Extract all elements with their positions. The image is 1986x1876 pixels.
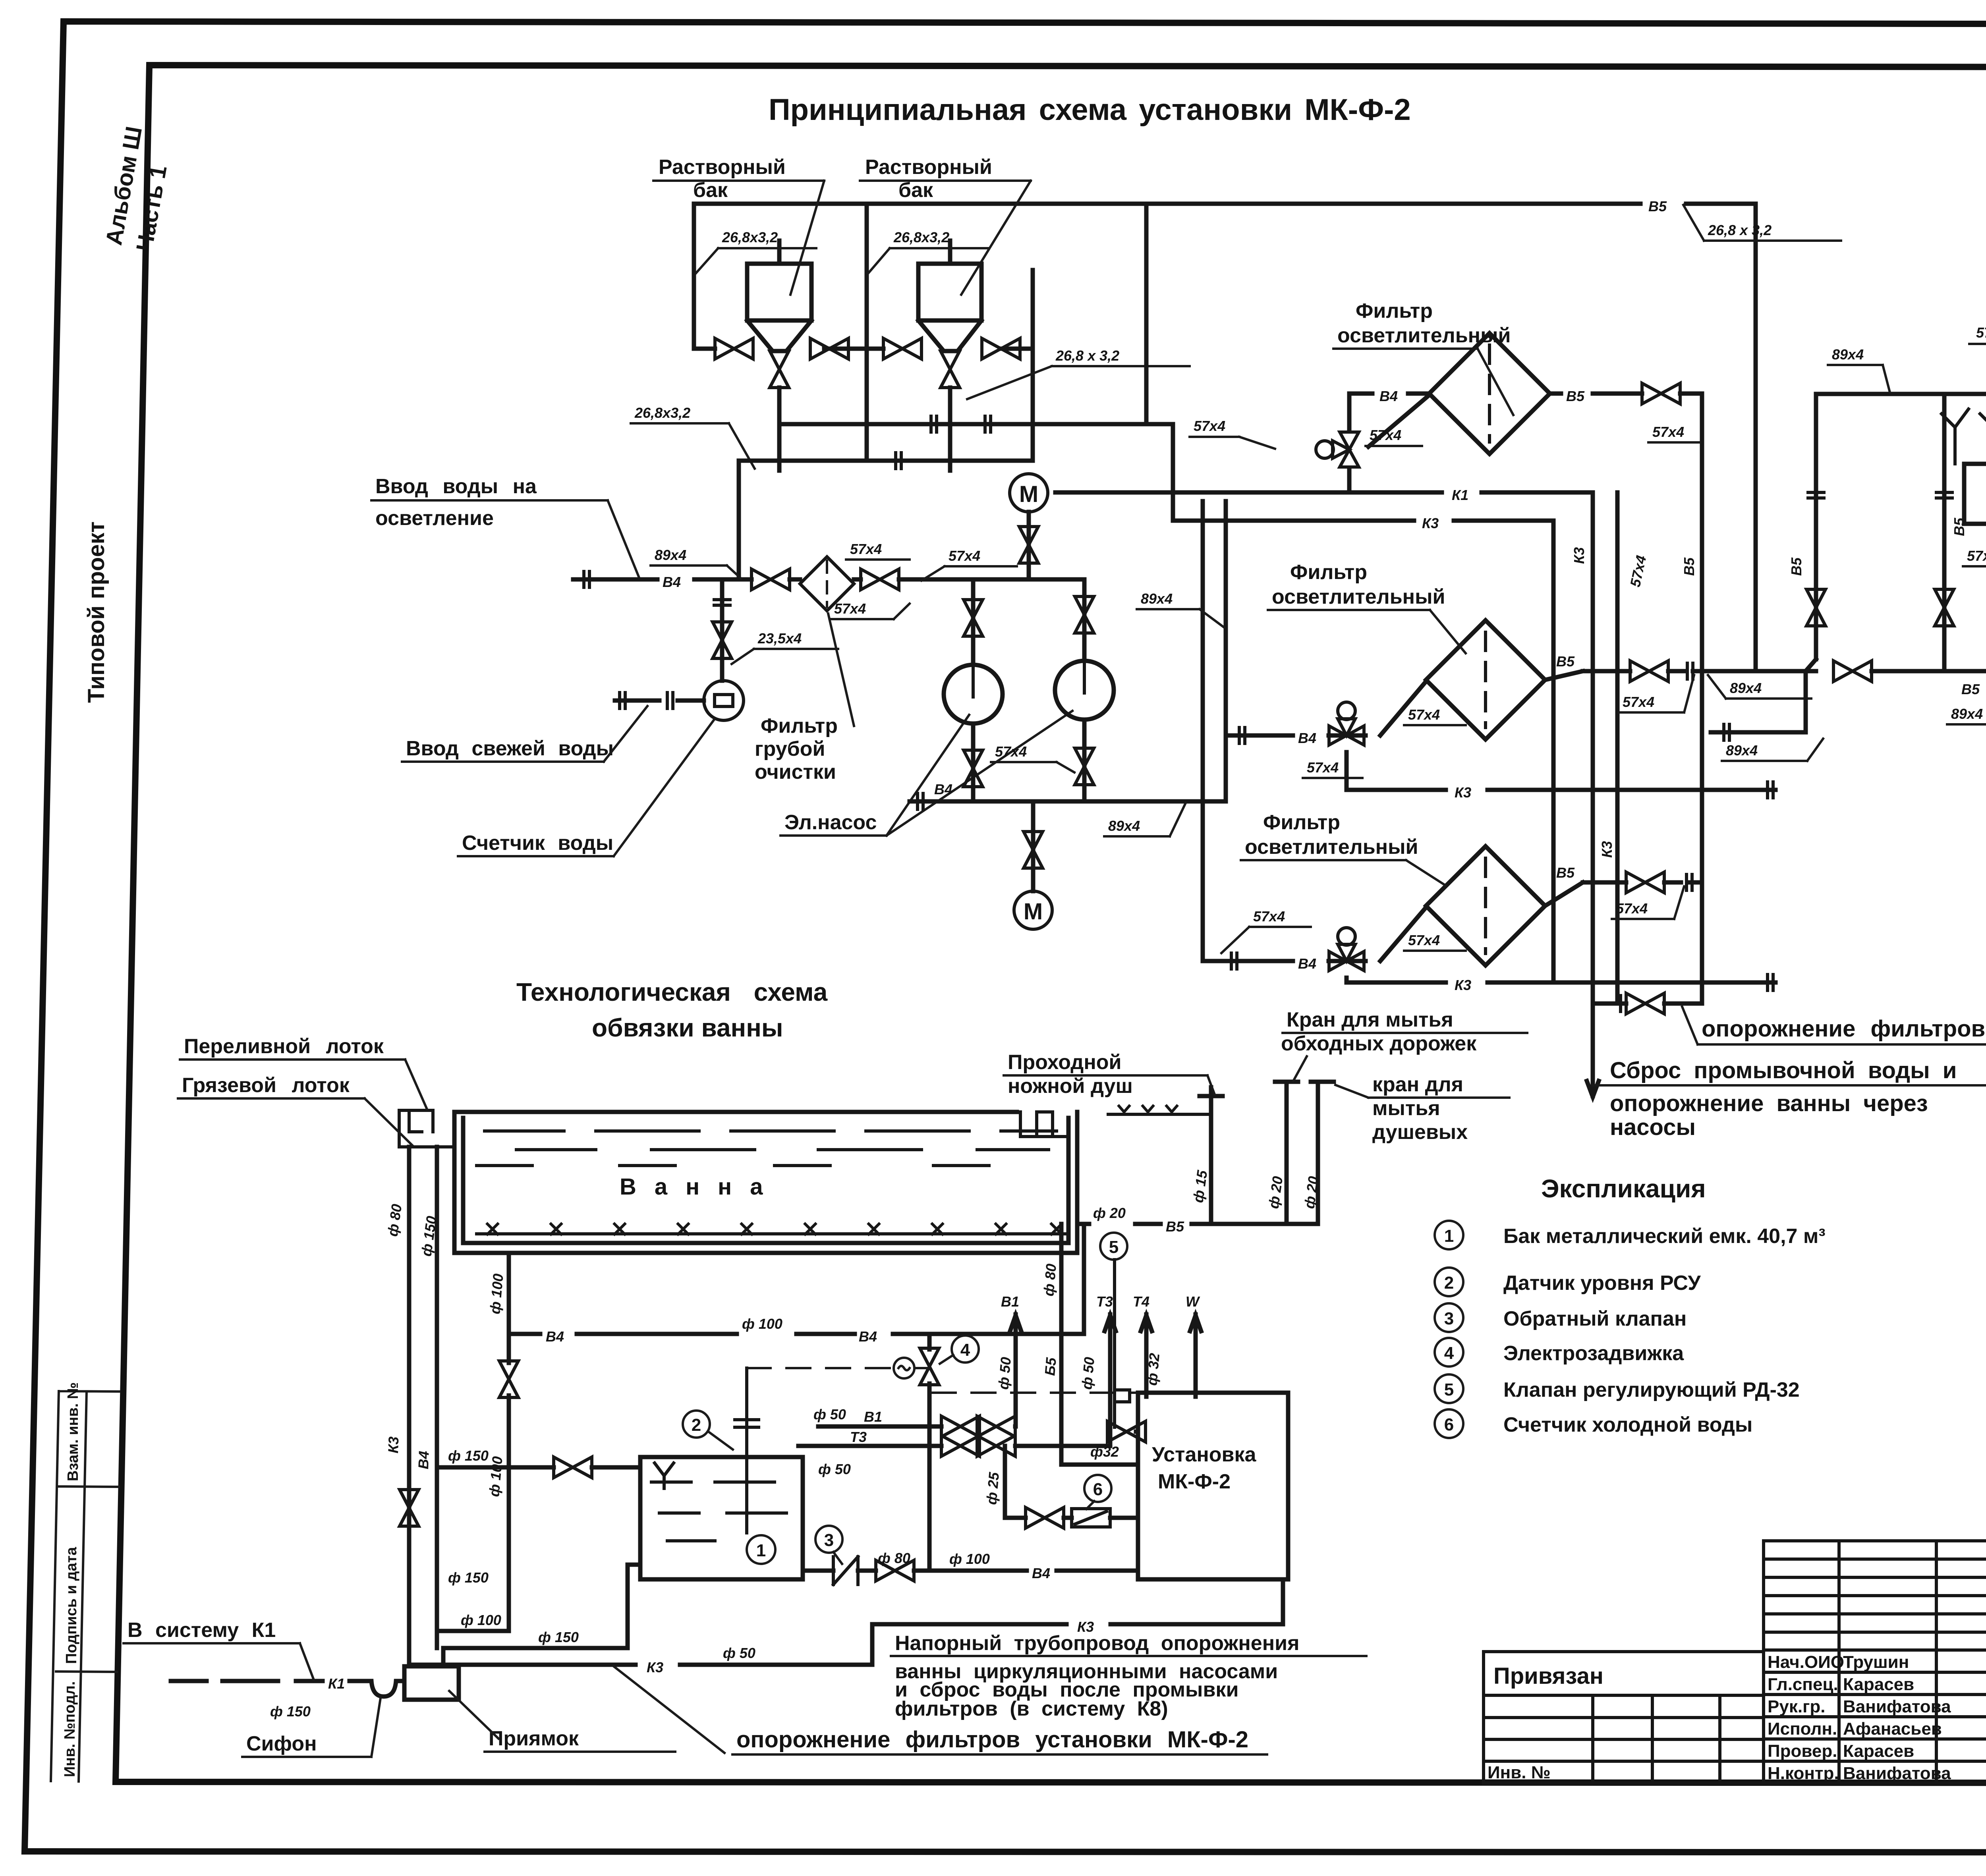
wire: K1 outfall dashes xyxy=(171,1679,359,1683)
bath bottom x marks xyxy=(487,1224,1062,1234)
svg-text:В5: В5 xyxy=(1648,198,1667,214)
flange tick xyxy=(1621,994,1626,1013)
flange tick xyxy=(985,415,991,434)
foot shower line xyxy=(1108,1113,1211,1116)
svg-text:Ванифатова: Ванифатова xyxy=(1843,1764,1951,1783)
svg-text:Типовой проект: Типовой проект xyxy=(83,521,109,703)
wire: filter3 outlet second B5 line xyxy=(1545,882,1702,906)
3-way valve filter2 xyxy=(1329,702,1364,745)
svg-text:В1: В1 xyxy=(1001,1293,1019,1310)
svg-text:К1: К1 xyxy=(1452,487,1468,503)
svg-text:57х4: 57х4 xyxy=(949,548,980,564)
svg-text:бак: бак xyxy=(693,179,728,202)
wire: K3 drop column xyxy=(1615,492,1620,1004)
svg-text:ножной душ: ножной душ xyxy=(1008,1075,1133,1098)
svg-text:ф 32: ф 32 xyxy=(1144,1353,1163,1386)
wire: fresh water stub xyxy=(615,699,704,703)
svg-text:Карасев: Карасев xyxy=(1843,1741,1914,1761)
wire: mid feed drop xyxy=(824,204,883,461)
svg-text:К1: К1 xyxy=(328,1675,345,1692)
svg-text:57х4: 57х4 xyxy=(850,541,882,557)
svg-text:Исполн.: Исполн. xyxy=(1768,1719,1837,1739)
wire: K3 drop from trough xyxy=(407,1147,411,1665)
svg-text:4: 4 xyxy=(1444,1343,1454,1363)
svg-text:Растворный: Растворный xyxy=(659,156,786,179)
wire: B4 drop from trough xyxy=(435,1147,439,1648)
small grid top xyxy=(1764,1541,1986,1650)
svg-text:6: 6 xyxy=(1444,1415,1454,1434)
svg-text:Установка: Установка xyxy=(1152,1443,1257,1466)
valve under tank2 funnel xyxy=(941,351,960,388)
svg-text:Принципиальная схема устан: Принципиальная схема установки МК-Ф-2 xyxy=(769,93,1411,127)
valve xyxy=(964,600,983,636)
wire: filter3 inlet xyxy=(1204,907,1426,961)
svg-text:Т4: Т4 xyxy=(1133,1293,1149,1310)
valve inlet left xyxy=(752,569,790,590)
svg-text:Т3: Т3 xyxy=(1096,1293,1113,1310)
svg-text:фильтров (в систему К8): фильтров (в систему К8) xyxy=(895,1697,1168,1720)
wire: K3 f50 bottom line xyxy=(409,1663,872,1667)
callout circle 3 xyxy=(815,1526,842,1553)
wire: T3 riser with arrow xyxy=(1105,1314,1116,1446)
svg-text:57х4: 57х4 xyxy=(1370,427,1401,443)
valve tank1 right xyxy=(810,338,848,359)
wire: T4 riser with arrow xyxy=(1141,1314,1152,1397)
water heater xyxy=(1964,464,1986,524)
unit MK-F-2 box xyxy=(1138,1393,1288,1579)
motor M top xyxy=(1010,474,1048,512)
valve tank2 right xyxy=(982,338,1020,359)
svg-text:В систему К1: В систему К1 xyxy=(128,1619,276,1642)
valve xyxy=(400,1490,419,1526)
svg-text:Технологическая схема: Технологическая схема xyxy=(516,978,828,1006)
svg-text:5: 5 xyxy=(1109,1237,1119,1257)
siphon xyxy=(359,1681,404,1697)
svg-text:26,8х3,2: 26,8х3,2 xyxy=(893,229,949,245)
svg-text:кран для: кран для xyxy=(1372,1073,1463,1096)
wire: B5 filling header xyxy=(1077,1091,1318,1224)
left attach block xyxy=(1484,1652,1764,1783)
svg-text:4: 4 xyxy=(960,1340,970,1360)
callout circle 1 xyxy=(747,1535,775,1564)
svg-text:Сифон: Сифон xyxy=(246,1732,317,1755)
gate valve on meter drop xyxy=(713,622,732,658)
svg-text:3: 3 xyxy=(824,1531,834,1550)
wire: B5 riser to unit xyxy=(1061,1224,1138,1465)
svg-text:В4: В4 xyxy=(663,574,681,590)
valve xyxy=(1630,661,1668,681)
svg-text:ф 20: ф 20 xyxy=(1093,1205,1126,1221)
wire: B4 line to unit xyxy=(509,1332,1084,1336)
svg-text:Взам. инв. №: Взам. инв. № xyxy=(65,1382,81,1481)
svg-text:Кран для мытья: Кран для мытья xyxy=(1287,1008,1453,1031)
wire: collector line 2 xyxy=(739,461,1033,579)
level sensor stick xyxy=(735,1368,759,1533)
svg-text:Ввод свежей воды: Ввод свежей воды xyxy=(406,737,614,760)
svg-text:Проходной: Проходной xyxy=(1008,1051,1121,1074)
svg-text:ф 25: ф 25 xyxy=(983,1471,1002,1505)
svg-text:К3: К3 xyxy=(647,1659,663,1675)
svg-text:57х4: 57х4 xyxy=(1194,418,1225,434)
svg-text:В5: В5 xyxy=(1556,865,1575,881)
wire: W riser with arrow xyxy=(1190,1314,1201,1397)
wire: tank feed f150 xyxy=(437,1465,640,1470)
svg-text:Рук.гр.: Рук.гр. xyxy=(1768,1697,1826,1716)
solution tank 2 xyxy=(918,241,981,351)
pump 2 xyxy=(1055,661,1114,720)
svg-text:ф 100: ф 100 xyxy=(742,1316,782,1332)
svg-text:осветлительный: осветлительный xyxy=(1245,836,1418,859)
heater inlet funnels xyxy=(1942,395,1986,464)
svg-text:Фильтр: Фильтр xyxy=(1290,561,1367,584)
wire: bath center drain xyxy=(507,1253,511,1334)
svg-text:Напорный трубопровод опорожн: Напорный трубопровод опорожнения xyxy=(895,1632,1299,1655)
dashed line to unit xyxy=(932,1392,1138,1394)
svg-text:Растворный: Растворный xyxy=(865,156,992,179)
svg-text:К3: К3 xyxy=(1455,977,1471,993)
svg-text:Провер.: Провер. xyxy=(1768,1741,1837,1761)
wire: T3 line xyxy=(798,1444,1110,1448)
svg-text:обвязки ванны: обвязки ванны xyxy=(592,1013,783,1042)
circle symbol xyxy=(1435,1374,1463,1403)
svg-text:Подпись и дата: Подпись и дата xyxy=(63,1547,80,1664)
valve xyxy=(920,1348,939,1385)
svg-text:6: 6 xyxy=(1093,1480,1103,1499)
wire: riser A down xyxy=(1224,501,1228,801)
pit (priyamok) xyxy=(404,1666,459,1700)
svg-text:В4: В4 xyxy=(1298,955,1316,972)
wire: filter2 outlet to main outlet line xyxy=(1545,671,1986,680)
valve xyxy=(499,1361,518,1397)
flange tick xyxy=(1806,492,1826,498)
svg-text:ф 50: ф 50 xyxy=(813,1406,846,1422)
wire: bath right drain riser xyxy=(1082,1224,1086,1334)
TOPSCHEME xyxy=(371,156,1986,1097)
flange tick xyxy=(1231,952,1237,971)
svg-text:ф 15: ф 15 xyxy=(1190,1169,1210,1204)
svg-text:ф 50: ф 50 xyxy=(818,1461,851,1477)
wire: filter3 K3 drain xyxy=(1347,978,1775,982)
svg-text:57х4: 57х4 xyxy=(1307,759,1339,776)
svg-text:бак: бак xyxy=(898,179,933,202)
valve xyxy=(1626,872,1664,893)
3-way valve filter3 xyxy=(1329,928,1364,971)
clarifying filter 3 xyxy=(1426,846,1545,965)
wire: cold meter line item 6 xyxy=(1005,1446,1138,1518)
electric gate valve with circle 4 xyxy=(927,1334,932,1571)
svg-text:В5: В5 xyxy=(1961,681,1980,697)
svg-text:В5: В5 xyxy=(1788,557,1804,576)
tap risers f20 xyxy=(1275,1082,1298,1224)
flange tick xyxy=(1687,873,1692,892)
wire: collector line 1 (tanks drain) xyxy=(779,424,1173,521)
wire: heater loop top xyxy=(1816,394,1986,421)
flange tick xyxy=(667,691,673,710)
flange tick xyxy=(1768,780,1773,799)
valve xyxy=(964,750,983,787)
clarifying filter 1 xyxy=(1429,333,1550,454)
wire: tank1 feed drop xyxy=(694,204,715,349)
left margin stamp boxes xyxy=(51,1391,120,1781)
svg-text:К3: К3 xyxy=(1455,784,1471,801)
wire: K3 line from tanks xyxy=(1173,521,1553,982)
shower riser f15 xyxy=(1200,1087,1223,1224)
svg-text:Счетчик воды: Счетчик воды xyxy=(462,832,613,855)
flange tick xyxy=(918,792,923,811)
svg-text:26,8х3,2: 26,8х3,2 xyxy=(722,229,778,245)
wire: V1 line xyxy=(818,1424,1016,1429)
valve xyxy=(1019,527,1038,563)
wire: drain line to pit xyxy=(1593,1002,1702,1006)
svg-text:Гл.спец.: Гл.спец. xyxy=(1768,1675,1838,1694)
svg-text:57х4: 57х4 xyxy=(1976,324,1986,341)
svg-text:57х4: 57х4 xyxy=(1652,424,1684,440)
callout circle 5 regulating valve RD-32 xyxy=(1100,1233,1127,1260)
wire tank1 drain xyxy=(777,351,782,471)
svg-text:2: 2 xyxy=(692,1415,701,1435)
wire: top B5 header xyxy=(694,204,1756,671)
svg-text:М: М xyxy=(1024,899,1043,924)
svg-text:57х4: 57х4 xyxy=(1967,548,1986,564)
svg-text:57х4: 57х4 xyxy=(1408,706,1440,723)
svg-text:В5: В5 xyxy=(1566,388,1585,404)
valve T3 a xyxy=(941,1436,979,1456)
wire: heater loop riser xyxy=(1806,394,1816,671)
svg-text:Инв. №: Инв. № xyxy=(1488,1763,1551,1782)
tank inlet funnel xyxy=(655,1463,674,1488)
svg-text:3: 3 xyxy=(1444,1309,1454,1328)
svg-text:1: 1 xyxy=(1444,1226,1454,1246)
svg-text:89х4: 89х4 xyxy=(655,547,686,563)
wire: pump discharges down xyxy=(973,720,1084,801)
svg-text:опорожнение фильтров установ: опорожнение фильтров установки МК-Ф-2 xyxy=(736,1727,1248,1752)
wire: filter1 inlet xyxy=(1349,394,1429,447)
water meter xyxy=(704,681,744,720)
svg-text:ф 100: ф 100 xyxy=(486,1456,506,1498)
svg-text:В5: В5 xyxy=(1166,1218,1184,1235)
svg-text:26,8 х 3,2: 26,8 х 3,2 xyxy=(1055,347,1119,364)
valve xyxy=(1024,832,1043,868)
v mark xyxy=(1119,1106,1129,1112)
wire: K1 sewer line xyxy=(1055,492,1599,1097)
coarse filter (Y-strainer diamond) xyxy=(800,557,854,611)
flange tick xyxy=(620,691,625,710)
svg-text:В4: В4 xyxy=(1298,730,1316,746)
svg-text:Т3: Т3 xyxy=(850,1429,867,1445)
valve xyxy=(1806,589,1826,626)
wire: tank left drain down xyxy=(443,1565,640,1648)
svg-text:Нач.ОИО: Нач.ОИО xyxy=(1768,1652,1844,1672)
valve under tank1 funnel xyxy=(770,351,789,388)
svg-text:ф 50: ф 50 xyxy=(1078,1357,1097,1390)
overflow trough left xyxy=(399,1110,454,1147)
svg-text:К3: К3 xyxy=(1599,841,1615,858)
svg-text:ф 80: ф 80 xyxy=(384,1203,405,1237)
solution tank 1 xyxy=(747,241,811,351)
circle symbol xyxy=(1435,1338,1463,1366)
junction ticks on collectors xyxy=(931,415,937,434)
flange tick xyxy=(1239,726,1245,745)
svg-text:Электрозадвижка: Электрозадвижка xyxy=(1503,1342,1684,1365)
svg-text:ф 100: ф 100 xyxy=(487,1273,506,1315)
svg-text:57х4: 57х4 xyxy=(1623,694,1654,710)
wire tank2 drain xyxy=(948,388,952,471)
svg-text:ф 150: ф 150 xyxy=(448,1569,489,1586)
svg-text:В4: В4 xyxy=(934,781,952,797)
valve V1 b xyxy=(977,1416,1015,1437)
svg-text:В1: В1 xyxy=(864,1409,882,1425)
svg-text:К3: К3 xyxy=(1571,547,1587,564)
valve xyxy=(1075,748,1094,785)
svg-text:57х4: 57х4 xyxy=(1253,908,1285,924)
svg-text:89х4: 89х4 xyxy=(1951,706,1983,722)
wire: V1 riser with arrow xyxy=(1010,1314,1021,1426)
x mark xyxy=(487,1224,498,1234)
valve V1 a xyxy=(941,1416,979,1437)
svg-text:Ванна: Ванна xyxy=(620,1174,781,1200)
svg-text:Карасев: Карасев xyxy=(1843,1675,1914,1694)
svg-text:Сброс промывочной воды и: Сброс промывочной воды и xyxy=(1610,1058,1957,1083)
svg-text:ф 80: ф 80 xyxy=(878,1550,910,1566)
svg-text:В4: В4 xyxy=(415,1451,432,1469)
pump 1 xyxy=(944,665,1003,724)
svg-text:Датчик уровня РСУ: Датчик уровня РСУ xyxy=(1503,1272,1701,1295)
svg-text:опорожнение фильтров /в при: опорожнение фильтров /в приямок/ xyxy=(1702,1016,1986,1042)
svg-text:В5: В5 xyxy=(1556,653,1575,670)
svg-text:57х4: 57х4 xyxy=(834,600,866,617)
callout circle 6 xyxy=(1084,1475,1111,1502)
valve xyxy=(1626,993,1664,1014)
svg-text:57х4: 57х4 xyxy=(1616,900,1648,917)
metal tank (item 1) xyxy=(640,1457,803,1579)
svg-text:ф 100: ф 100 xyxy=(949,1551,990,1567)
wire: B5 return drop xyxy=(1144,204,1149,424)
wire: f32 stub to unit xyxy=(1136,1430,1138,1434)
valve xyxy=(876,1560,914,1581)
flange tick xyxy=(713,600,732,605)
svg-text:Счетчик холодной воды: Счетчик холодной воды xyxy=(1503,1413,1752,1436)
valve xyxy=(1075,596,1094,633)
callout circle 8 (sensor) xyxy=(683,1411,710,1438)
wire: K3 riser from unit xyxy=(872,1579,1283,1665)
BOTTOMSCHEME xyxy=(124,1007,1986,1757)
svg-text:Б5: Б5 xyxy=(1041,1357,1059,1376)
tank water dashes xyxy=(651,1482,786,1541)
svg-text:ф 20: ф 20 xyxy=(1265,1175,1286,1210)
wire: filter1 outlet xyxy=(1550,392,1702,396)
svg-text:К3: К3 xyxy=(385,1436,402,1454)
valve inlet right xyxy=(861,569,899,590)
valve xyxy=(1642,383,1680,404)
svg-text:душевых: душевых xyxy=(1372,1121,1468,1144)
flange tick xyxy=(896,451,901,470)
svg-text:23,5х4: 23,5х4 xyxy=(757,630,802,647)
svg-text:Переливной лоток: Переливной лоток xyxy=(184,1035,384,1058)
valve xyxy=(1833,661,1872,681)
svg-text:осветлительный: осветлительный xyxy=(1337,324,1511,347)
wire: B5 column from filter1 outlet xyxy=(1700,394,1704,1004)
motor M bottom xyxy=(1014,891,1052,929)
wire: drain continuation down xyxy=(507,1334,511,1631)
bath overflow comb right xyxy=(1020,1112,1068,1137)
svg-text:В4: В4 xyxy=(859,1328,877,1345)
svg-text:Привязан: Привязан xyxy=(1493,1663,1603,1689)
svg-text:57х4: 57х4 xyxy=(1408,932,1440,948)
circle symbol xyxy=(1435,1268,1463,1296)
svg-text:осветление: осветление xyxy=(375,507,494,530)
callout circle 4 xyxy=(952,1336,979,1363)
check valve item 3 xyxy=(833,1557,858,1585)
flange tick xyxy=(1724,723,1729,742)
svg-text:Фильтр: Фильтр xyxy=(1356,299,1433,322)
actuator circle on valve xyxy=(894,1358,914,1378)
svg-text:Ванифатова: Ванифатова xyxy=(1843,1697,1951,1716)
svg-text:ф 150: ф 150 xyxy=(270,1703,311,1720)
svg-text:89х4: 89х4 xyxy=(1832,346,1864,363)
svg-text:В5: В5 xyxy=(1681,557,1697,576)
clarifying filter 2 xyxy=(1426,620,1545,739)
svg-text:89х4: 89х4 xyxy=(1730,680,1762,696)
svg-text:57х4: 57х4 xyxy=(1627,554,1650,589)
svg-text:В4: В4 xyxy=(1379,388,1398,404)
svg-text:ф 150: ф 150 xyxy=(538,1629,579,1645)
svg-text:26,8х3,2: 26,8х3,2 xyxy=(634,405,690,421)
svg-text:89х4: 89х4 xyxy=(1108,818,1140,834)
wire: right feed drop xyxy=(1001,270,1033,461)
svg-text:Приямок: Приямок xyxy=(489,1727,579,1750)
svg-text:мытья: мытья xyxy=(1372,1097,1440,1120)
dashed control line to level sensor xyxy=(747,1367,893,1369)
svg-text:МК-Ф-2: МК-Ф-2 xyxy=(1158,1470,1231,1493)
svg-text:ф 100: ф 100 xyxy=(461,1612,501,1628)
flange tick xyxy=(1768,973,1773,992)
svg-text:ф32: ф32 xyxy=(1090,1444,1119,1460)
circle symbol xyxy=(1435,1303,1463,1332)
signature rows xyxy=(1764,1650,1986,1783)
flange tick xyxy=(1687,662,1693,681)
svg-text:М: М xyxy=(1019,481,1038,507)
svg-text:В4: В4 xyxy=(546,1328,564,1345)
valve tank1 left xyxy=(715,338,753,359)
flange tick xyxy=(1935,492,1954,498)
bath basin xyxy=(454,1112,1077,1253)
svg-text:1: 1 xyxy=(756,1541,766,1560)
svg-text:W: W xyxy=(1186,1293,1200,1310)
svg-text:осветлительный: осветлительный xyxy=(1272,585,1445,608)
wire: 89x4 riser xyxy=(1942,394,1947,671)
svg-text:89х4: 89х4 xyxy=(1726,742,1758,759)
svg-text:обходных дорожек: обходных дорожек xyxy=(1281,1032,1477,1055)
svg-text:грубой: грубой xyxy=(755,737,825,760)
svg-text:Экспликация: Экспликация xyxy=(1541,1174,1706,1203)
svg-text:Обратный клапан: Обратный клапан xyxy=(1503,1307,1687,1330)
wire: 89x4 bypass below outlet xyxy=(1711,671,1806,732)
wire: regulated f32 line xyxy=(1113,1260,1116,1427)
svg-text:К3: К3 xyxy=(1422,515,1439,531)
valve xyxy=(554,1457,592,1478)
water surface dashes xyxy=(477,1131,1057,1166)
valve T3 b xyxy=(977,1436,1015,1456)
wire: drop to motor M bottom xyxy=(1031,801,1036,891)
wire: filter2 inlet xyxy=(1226,681,1426,735)
svg-text:26,8 х 3,2: 26,8 х 3,2 xyxy=(1708,222,1772,238)
svg-text:Инв. №подл.: Инв. №подл. xyxy=(62,1681,78,1777)
wire: riser B down xyxy=(1201,501,1205,961)
regulator actuator on dashed line xyxy=(1115,1390,1130,1402)
svg-text:Трушин: Трушин xyxy=(1843,1652,1909,1672)
valve xyxy=(1935,589,1954,626)
svg-text:Бак металлический емк. 40,7 м: Бак металлический емк. 40,7 м³ xyxy=(1503,1225,1826,1248)
